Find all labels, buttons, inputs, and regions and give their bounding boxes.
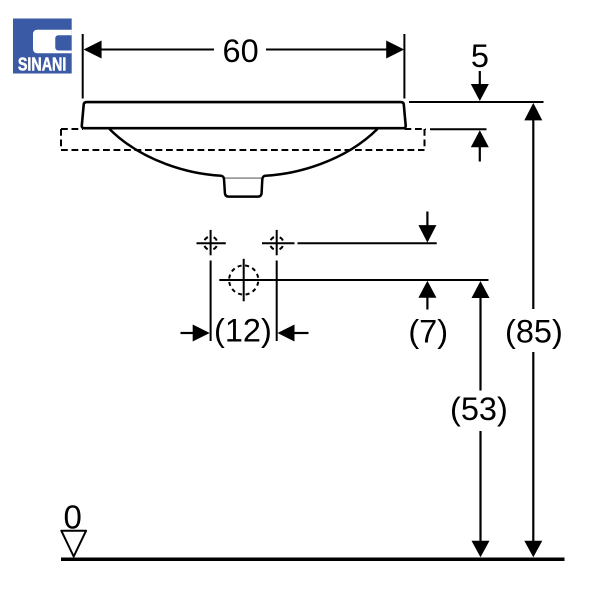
- svg-text:5: 5: [471, 38, 489, 74]
- svg-text:60: 60: [223, 33, 259, 69]
- svg-text:(12): (12): [214, 313, 272, 349]
- svg-text:(85): (85): [505, 314, 563, 350]
- svg-text:(7): (7): [408, 314, 448, 350]
- svg-text:(53): (53): [450, 391, 508, 427]
- svg-text:SINANI: SINANI: [18, 55, 67, 75]
